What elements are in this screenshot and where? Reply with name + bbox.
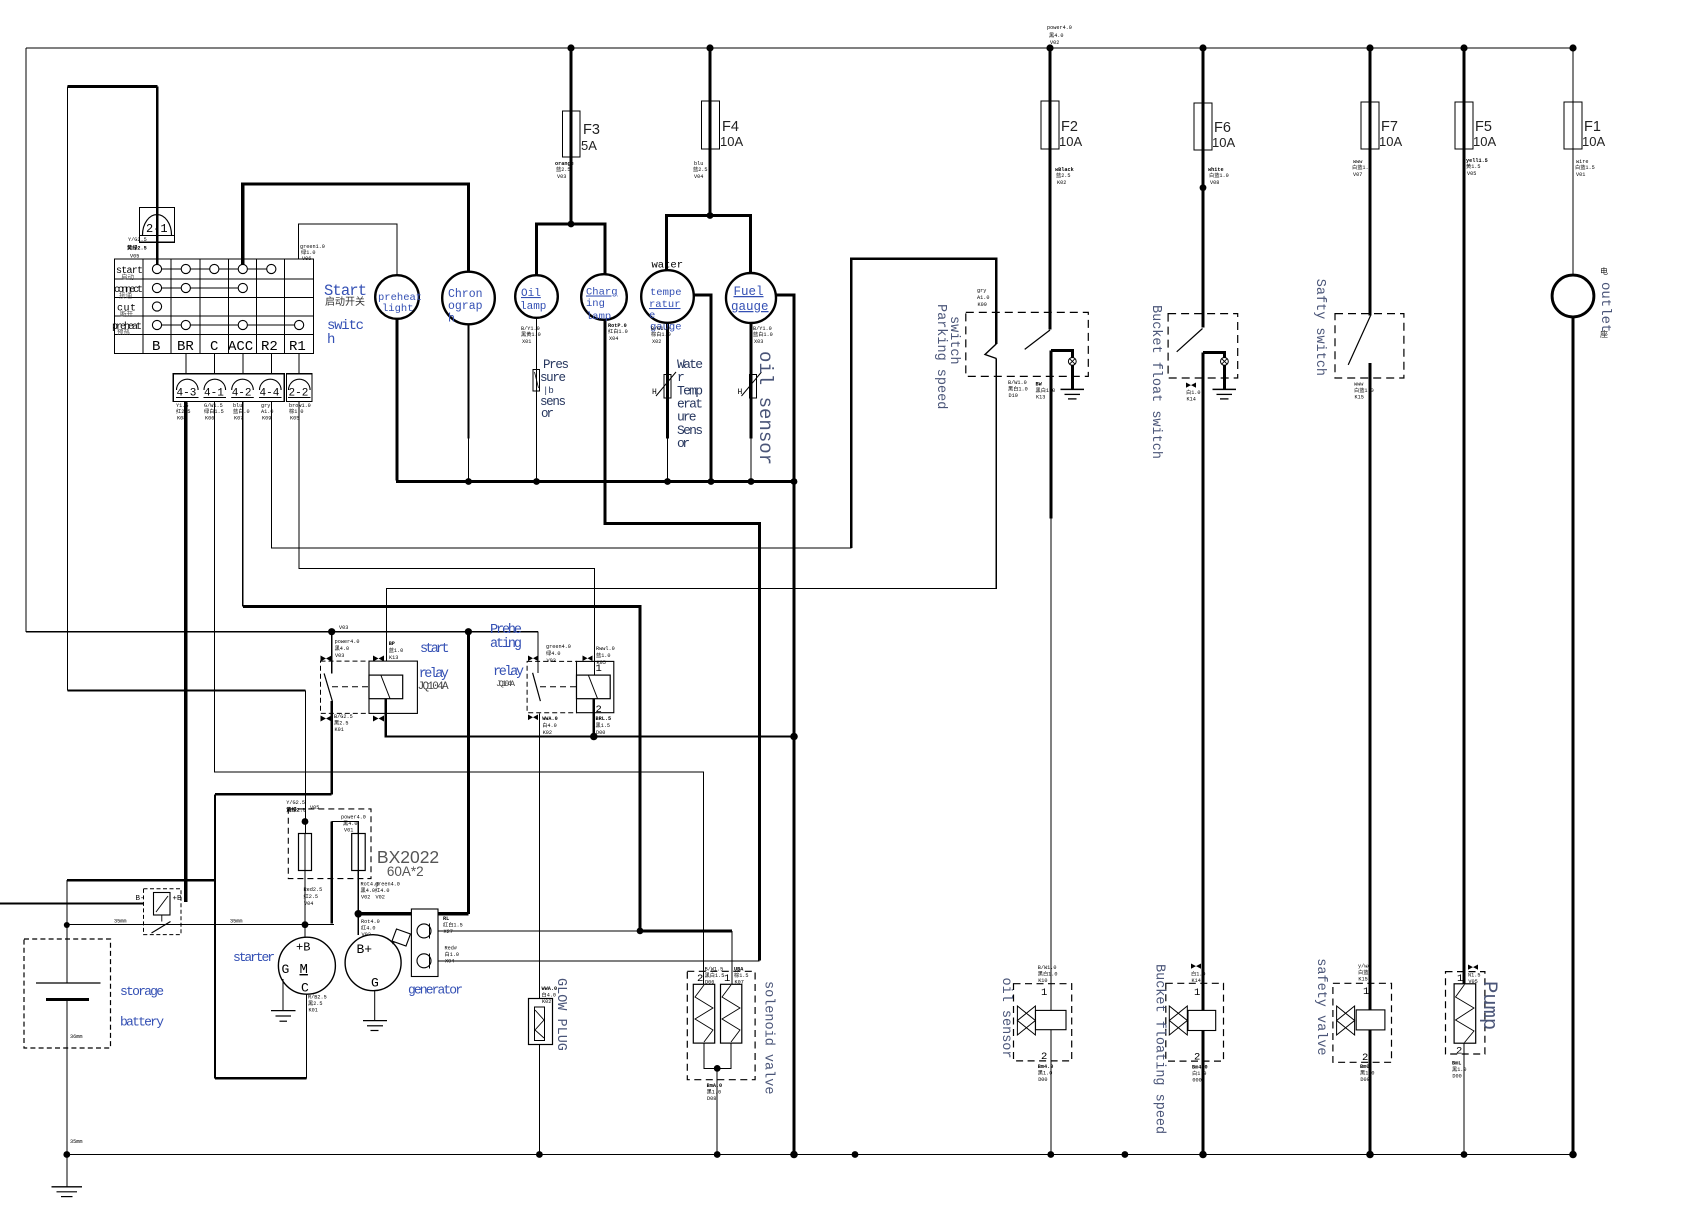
- svg-text:ograp: ograp: [448, 300, 483, 313]
- svg-text:36mm: 36mm: [70, 1034, 82, 1040]
- svg-text:B/W1.0: B/W1.0: [1008, 380, 1027, 386]
- svg-text:白1.0: 白1.0: [1186, 388, 1201, 396]
- svg-text:蓝1.0: 蓝1.0: [596, 651, 611, 659]
- sensor diagonal pressure: [535, 372, 539, 388]
- SEC3: [0, 363, 996, 1155]
- svg-text:Parking speed: Parking speed: [933, 304, 948, 409]
- svg-text:switch: switch: [946, 316, 961, 365]
- svg-text:2: 2: [1362, 1052, 1368, 1064]
- svg-text:红4.0: 红4.0: [375, 886, 390, 894]
- svg-text:BR: BR: [177, 339, 194, 355]
- svg-text:K10: K10: [1038, 978, 1047, 984]
- wire V03 thick drop to generator node: [467, 632, 470, 914]
- svg-text:C: C: [301, 981, 309, 996]
- svg-text:light: light: [382, 303, 414, 315]
- connector row box: [173, 374, 284, 402]
- svg-text:V03: V03: [557, 174, 566, 180]
- fuse F7 wire: [1368, 48, 1371, 316]
- junction dot C1 node: [637, 928, 644, 935]
- svg-text:10A: 10A: [1059, 134, 1082, 149]
- relay preheating coil: [577, 675, 611, 699]
- table terminal circles connect row: [152, 283, 161, 292]
- svg-text:K07: K07: [735, 980, 744, 986]
- svg-text:solenoid valve: solenoid valve: [761, 981, 776, 1094]
- svg-text:黄绿2.5: 黄绿2.5: [286, 806, 306, 814]
- wire 2-2 R1 to preheating relay coil: [299, 402, 594, 676]
- svg-text:蓝白1.0: 蓝白1.0: [753, 330, 773, 338]
- svg-text:ating: ating: [490, 637, 522, 652]
- wire solenoid common to bus: [716, 1068, 718, 1154]
- generator flag connector: [393, 937, 400, 945]
- svg-text:A1.0: A1.0: [977, 295, 989, 301]
- svg-text:白蓝μ: 白蓝μ: [1358, 968, 1372, 976]
- wire generator node bus: [358, 912, 469, 915]
- sensor body water temperature: [664, 375, 671, 399]
- svg-text:lamp: lamp: [520, 301, 546, 313]
- svg-text:h: h: [448, 313, 455, 326]
- svg-text:G: G: [282, 962, 290, 977]
- svg-text:Rwwl.0: Rwwl.0: [596, 646, 615, 652]
- sensor diagonal water temp: [656, 372, 676, 396]
- svg-text:000: 000: [1192, 1078, 1201, 1084]
- wire parking frame right below break: [995, 359, 997, 589]
- svg-text:K02: K02: [543, 730, 552, 736]
- ground generator: [374, 991, 376, 1021]
- svg-text:蓝白.0: 蓝白.0: [233, 407, 250, 415]
- svg-text:35mm: 35mm: [230, 919, 242, 925]
- svg-text:黑1.0: 黑1.0: [1360, 1070, 1375, 1077]
- wire fuse B feed from starter node: [330, 822, 333, 924]
- wire label pump top: [1468, 965, 1478, 970]
- svg-text:K02: K02: [542, 999, 551, 1005]
- wire V03 node horizontal: [26, 631, 538, 633]
- svg-text:tempe: tempe: [650, 287, 682, 299]
- wire parking switch lower contact: [1051, 350, 1073, 357]
- svg-text:F5: F5: [1475, 119, 1492, 135]
- svg-text:K14: K14: [1187, 397, 1196, 403]
- svg-text:1: 1: [1363, 986, 1369, 998]
- svg-text:1: 1: [724, 973, 730, 985]
- svg-text:K13: K13: [1036, 395, 1045, 401]
- connector 2-1 box: [140, 208, 175, 243]
- svg-text:D00: D00: [1360, 1077, 1369, 1083]
- svg-text:白1.0: 白1.0: [445, 950, 460, 958]
- svg-text:K02: K02: [1057, 180, 1066, 186]
- svg-text:ACC: ACC: [228, 339, 253, 355]
- svg-text:红4.0: 红4.0: [361, 924, 376, 932]
- svg-text:B-: B-: [136, 895, 145, 903]
- svg-text:R/B2.5: R/B2.5: [308, 995, 327, 1001]
- switch safty dashed box: [1335, 314, 1404, 378]
- wire battery cable vertical: [214, 794, 216, 1078]
- svg-text:B: B: [152, 339, 160, 355]
- fuse F2 body: [1041, 101, 1059, 149]
- lamp oil: [515, 275, 558, 318]
- wire start relay switch top pin: [331, 632, 333, 674]
- fuse F2 wire: [1048, 48, 1051, 330]
- wire BX fuse B bottom to generator node: [357, 871, 359, 914]
- fuse F5 wire: [1462, 48, 1465, 985]
- connector 2-2: [289, 379, 311, 390]
- wire preheat light down to bus: [396, 319, 399, 481]
- wire bucket ground stub: [1223, 365, 1226, 389]
- wire F3 split to oil lamp and charging lamp: [537, 224, 606, 275]
- svg-text:B/G2.5: B/G2.5: [334, 714, 353, 720]
- sensor body fuel/oil: [750, 375, 757, 399]
- svg-text:outlet: outlet: [1597, 282, 1613, 332]
- wire x794 vertical to bottom bus: [792, 482, 795, 1155]
- wire generator C1 line: [438, 930, 640, 932]
- svg-text:V05: V05: [1467, 171, 1476, 177]
- connector 4-1: [204, 379, 226, 390]
- svg-text:R1: R1: [289, 339, 306, 355]
- svg-text:X03: X03: [754, 339, 763, 345]
- svg-text:D08: D08: [707, 1096, 716, 1102]
- svg-text:N1.5: N1.5: [1468, 973, 1480, 979]
- junction dots battery area: [64, 922, 70, 928]
- sensor diagonal fuel: [742, 372, 762, 396]
- SEC2: [26, 87, 851, 985]
- svg-text:绿白1.5: 绿白1.5: [204, 407, 224, 415]
- svg-text:e: e: [649, 310, 655, 322]
- svg-text:K07: K07: [234, 416, 243, 422]
- svg-text:黄绿2.5: 黄绿2.5: [127, 244, 147, 252]
- wire water temp gauge down via sensor: [666, 323, 669, 439]
- svg-text:黑4.0: 黑4.0: [335, 645, 350, 652]
- gauge fuel: [726, 273, 776, 323]
- fuse BX B body: [352, 834, 366, 871]
- wire outlet down to bus: [1572, 318, 1575, 1155]
- wires table to connector row: [185, 354, 187, 374]
- svg-text:power4.0: power4.0: [1047, 25, 1072, 31]
- svg-text:红白1.5: 红白1.5: [443, 921, 463, 929]
- fuse F3 body: [563, 111, 581, 157]
- svg-text:green4.0: green4.0: [375, 882, 400, 888]
- svg-text:蓝1.0: 蓝1.0: [389, 646, 404, 654]
- svg-text:BmA.0: BmA.0: [707, 1083, 723, 1089]
- wire F3 redraw through fuse: [569, 111, 572, 157]
- svg-text:黑4.0: 黑4.0: [361, 887, 376, 894]
- valve safety dashed box: [1333, 983, 1392, 1062]
- wire battery positive horizontal: [67, 879, 215, 881]
- svg-text:X01: X01: [522, 339, 531, 345]
- svg-text:C: C: [210, 339, 218, 355]
- svg-text:2-1: 2-1: [146, 222, 168, 236]
- wire parking ground stub: [1071, 365, 1074, 389]
- svg-text:V05: V05: [130, 254, 139, 260]
- lamp preheat light: [375, 275, 419, 319]
- wire to BX fuse A vertical: [305, 691, 307, 834]
- wire start relay coil top to parking switch: [387, 363, 997, 662]
- switch parking speed dashed box: [966, 312, 1089, 376]
- wire F4 split to water temp and fuel gauge: [667, 216, 751, 274]
- svg-text:sure: sure: [540, 371, 566, 385]
- wire preheat relay coil bottom pin: [593, 699, 595, 737]
- svg-text:绿4.0: 绿4.0: [546, 649, 561, 657]
- fuse F4 body: [702, 101, 720, 149]
- junction dot coil ground line: [590, 733, 598, 741]
- wire top power bus: [26, 47, 1573, 49]
- wire branch to battery cable: [215, 793, 332, 795]
- svg-text:白蓝1.0: 白蓝1.0: [1352, 163, 1372, 171]
- battery storage box: [24, 939, 111, 1048]
- svg-text:黑白1.0: 黑白1.0: [1038, 970, 1058, 978]
- svg-text:green4.0: green4.0: [546, 644, 571, 650]
- svg-text:红2.5: 红2.5: [304, 892, 319, 900]
- wire battery minus from edge: [0, 902, 144, 904]
- svg-text:棕白1.0: 棕白1.0: [651, 330, 671, 338]
- svg-text:F1: F1: [1584, 119, 1601, 135]
- wire jog to BX fuse B: [332, 822, 359, 834]
- junction dot V03 node: [328, 628, 335, 635]
- svg-text:F3: F3: [583, 122, 600, 138]
- wire 2-1 feed horizontal: [68, 85, 158, 88]
- svg-text:+B: +B: [173, 895, 183, 903]
- sensor oil (bottom) dashed box: [1014, 984, 1072, 1061]
- svg-text:H: H: [738, 388, 743, 397]
- svg-text:R2: R2: [261, 339, 278, 355]
- svg-text:启动开关: 启动开关: [325, 295, 365, 309]
- svg-text:黑2.5: 黑2.5: [334, 720, 349, 727]
- svg-text:Y/G2.5: Y/G2.5: [286, 800, 305, 806]
- relay start switch arm: [324, 673, 332, 701]
- wire bucket switch lower contact: [1203, 352, 1224, 357]
- wire solenoid pin1 drop: [731, 931, 733, 985]
- svg-text:D10: D10: [1009, 393, 1018, 399]
- valve bucket floating speed dashed box: [1166, 983, 1224, 1061]
- wire bottom ground bus: [67, 1154, 1573, 1156]
- wire glow plug feed from preheat relay: [538, 713, 540, 998]
- svg-text:白蓝1.5: 白蓝1.5: [1575, 163, 1595, 171]
- lamp charging: [581, 274, 627, 320]
- fuse F3 wire: [569, 48, 572, 224]
- svg-text:Pump: Pump: [1477, 981, 1500, 1030]
- wire charging lamp down through bus jog to generator C2 line: [605, 320, 760, 961]
- svg-text:K14: K14: [1192, 978, 1201, 984]
- svg-text:黑1.5: 黑1.5: [596, 722, 611, 729]
- ground starter: [282, 979, 284, 1011]
- heater glow plug outer: [529, 999, 553, 1045]
- wire parking switch output: [1049, 350, 1052, 518]
- svg-text:Bucket floating speed: Bucket floating speed: [1152, 964, 1167, 1134]
- svg-text:K15: K15: [1355, 395, 1364, 401]
- wire ACC thick horizontal to x640: [243, 607, 640, 931]
- connector bowtie start relay pins: [321, 656, 332, 662]
- svg-text:黑4.0: 黑4.0: [343, 820, 358, 827]
- table row links start: [162, 268, 182, 270]
- wire glow plug to bottom bus: [538, 1045, 540, 1155]
- relay start relay box: [321, 661, 370, 713]
- junction dots fuse splits: [568, 221, 575, 228]
- wire V03 to preheat relay switch: [537, 632, 539, 673]
- svg-text:V01: V01: [1576, 172, 1585, 178]
- svg-text:V02: V02: [376, 895, 385, 901]
- fuse F6 body: [1194, 103, 1212, 150]
- svg-text:B+: B+: [357, 942, 373, 957]
- svg-text:绿1.0: 绿1.0: [301, 248, 316, 256]
- svg-text:V05: V05: [1468, 979, 1477, 985]
- wire label bucket switch bottom: [1186, 383, 1196, 388]
- svg-text:5A: 5A: [581, 138, 597, 153]
- svg-text:lamp: lamp: [586, 311, 611, 323]
- svg-text:relay: relay: [493, 665, 524, 680]
- svg-text:F6: F6: [1214, 120, 1231, 136]
- svg-text:gry: gry: [977, 288, 986, 294]
- svg-text:黑白1.5: 黑白1.5: [705, 971, 725, 979]
- svg-text:power4.0: power4.0: [335, 639, 360, 645]
- relay preheating relay box: [527, 661, 576, 712]
- fusebox BX2022: [288, 809, 371, 879]
- junction dots gauge bus: [465, 478, 472, 485]
- svg-text:preheat: preheat: [112, 321, 142, 333]
- wire left battery-charge vertical: [67, 87, 69, 691]
- switch bucket float dashed box: [1168, 314, 1238, 378]
- svg-text:WWA.0: WWA.0: [542, 986, 558, 992]
- svg-text:2: 2: [1194, 1052, 1200, 1064]
- ground parking: [1061, 388, 1085, 390]
- svg-text:电: 电: [1600, 266, 1608, 277]
- svg-text:10A: 10A: [1473, 134, 1496, 149]
- svg-text:K01: K01: [309, 1008, 318, 1014]
- wire R1 to preheat light: [299, 224, 397, 276]
- svg-text:V03: V03: [339, 625, 348, 631]
- switch parking break zigzag: [985, 344, 996, 359]
- svg-text:B/W1.0: B/W1.0: [1038, 965, 1057, 971]
- svg-text:10A: 10A: [1582, 134, 1605, 149]
- svg-text:water: water: [652, 260, 684, 272]
- svg-text:D00: D00: [596, 730, 605, 736]
- svg-text:座: 座: [1600, 329, 1608, 340]
- svg-text:V03: V03: [547, 658, 556, 664]
- svg-text:Bm4.0: Bm4.0: [1038, 1064, 1054, 1070]
- junction dot F6 branch: [1200, 184, 1207, 191]
- wire bucket switch output down: [1202, 352, 1205, 1154]
- fuse F6 wire: [1201, 48, 1204, 328]
- svg-text:V01: V01: [344, 828, 353, 834]
- svg-text:棕1.0: 棕1.0: [289, 407, 304, 415]
- wire parking output thin to bus: [1050, 519, 1052, 1155]
- svg-text:generator: generator: [408, 983, 463, 998]
- wire 4-2 ACC down: [242, 402, 244, 607]
- svg-text:UBA: UBA: [734, 967, 744, 973]
- svg-text:BP: BP: [389, 641, 395, 647]
- wire start relay coil bottom to ground line: [386, 699, 794, 737]
- fuse F1 body: [1564, 102, 1582, 149]
- svg-text:Red#: Red#: [445, 946, 457, 952]
- svg-text:WWA.0: WWA.0: [542, 716, 558, 722]
- wire starter +B stub: [304, 925, 306, 940]
- svg-text:X27: X27: [444, 929, 453, 935]
- wire parking speed switch frame top: [851, 259, 996, 548]
- svg-text:D00: D00: [1038, 1077, 1047, 1083]
- svg-text:黑黄1.0: 黑黄1.0: [521, 330, 541, 338]
- svg-text:V06: V06: [302, 256, 311, 262]
- svg-text:Pres: Pres: [543, 358, 569, 372]
- wire starter C down: [306, 995, 308, 1079]
- svg-text:+B: +B: [296, 941, 310, 955]
- svg-text:JQ104A: JQ104A: [418, 681, 449, 693]
- wire gauge ground bus: [396, 480, 794, 483]
- ground bottom left: [52, 1186, 83, 1188]
- fuse F7 body: [1361, 102, 1379, 149]
- coil solenoid A: [693, 984, 714, 1043]
- SEC5: [67, 1155, 1573, 1187]
- svg-text:V05: V05: [310, 805, 319, 811]
- svg-text:K09: K09: [262, 416, 271, 422]
- battery plates: [36, 982, 101, 984]
- svg-text:ing: ing: [586, 298, 605, 310]
- fuse F4 wire: [708, 48, 711, 216]
- svg-text:BmL: BmL: [1452, 1061, 1461, 1067]
- table terminal circles preheat row: [152, 320, 161, 329]
- svg-text:2: 2: [697, 973, 703, 985]
- svg-text:start: start: [420, 642, 450, 657]
- svg-text:RL: RL: [443, 916, 449, 922]
- svg-text:蓝2.5: 蓝2.5: [1056, 171, 1071, 179]
- svg-text:10A: 10A: [1379, 134, 1402, 149]
- table terminal circle cut row: [152, 302, 161, 311]
- svg-text:www: www: [1354, 382, 1364, 388]
- svg-text:2: 2: [596, 704, 602, 716]
- svg-text:BRL.5: BRL.5: [596, 716, 612, 722]
- motor starter: [278, 937, 335, 994]
- svg-text:D06: D06: [705, 980, 714, 986]
- wire battery lower plate to bottom bus: [66, 1000, 68, 1155]
- svg-text:safety valve: safety valve: [1313, 958, 1328, 1055]
- svg-text:V04: V04: [304, 901, 313, 907]
- svg-text:y/wA: y/wA: [1358, 964, 1371, 970]
- fuse F1 wire: [1572, 48, 1574, 276]
- svg-text:M: M: [300, 962, 308, 978]
- svg-text:Bucket float switch: Bucket float switch: [1148, 305, 1163, 459]
- svg-text:D00: D00: [1452, 1074, 1461, 1080]
- relay preheating switch arm: [533, 673, 541, 701]
- wire fuel gauge down via sensor: [750, 323, 753, 439]
- coil solenoid B: [721, 984, 742, 1043]
- svg-text:白蓝1.0: 白蓝1.0: [1354, 386, 1374, 394]
- svg-text:1: 1: [1194, 987, 1200, 999]
- gauge water temperature: [641, 270, 694, 323]
- switch bucket arm: [1177, 329, 1203, 352]
- svg-text:35mm: 35mm: [114, 919, 126, 925]
- svg-text:蓝2.5: 蓝2.5: [693, 165, 708, 173]
- table row links preheat: [162, 324, 182, 326]
- wire ACC to chronograph: [243, 184, 469, 272]
- svg-text:Oil: Oil: [521, 288, 541, 300]
- svg-text:红白1.0: 红白1.0: [608, 327, 628, 335]
- svg-text:蓝2.5: 蓝2.5: [556, 165, 571, 173]
- connector bowtie preheating relay pins: [528, 656, 538, 662]
- wire BX fuse A bottom: [304, 871, 306, 925]
- socket outlet: [1552, 275, 1594, 317]
- pump dashed box: [1446, 972, 1485, 1054]
- svg-text:B/W1.5: B/W1.5: [705, 967, 724, 973]
- table row links connect: [162, 287, 182, 289]
- wire generator B+ top: [357, 914, 359, 935]
- valve solenoid dashed box: [687, 971, 755, 1079]
- svg-text:power4.0: power4.0: [341, 815, 366, 821]
- svg-text:K15: K15: [1358, 977, 1367, 983]
- svg-text:F7: F7: [1381, 119, 1398, 135]
- svg-text:starter: starter: [233, 950, 275, 965]
- svg-text:or: or: [677, 436, 690, 451]
- svg-text:棕1.5: 棕1.5: [734, 971, 749, 979]
- valve symbol oil sensor: [1017, 1006, 1035, 1035]
- svg-text:V08: V08: [1210, 180, 1219, 186]
- wire water temp gauge right side down: [694, 295, 712, 481]
- svg-text:X04: X04: [609, 336, 618, 342]
- svg-text:K06: K06: [205, 416, 214, 422]
